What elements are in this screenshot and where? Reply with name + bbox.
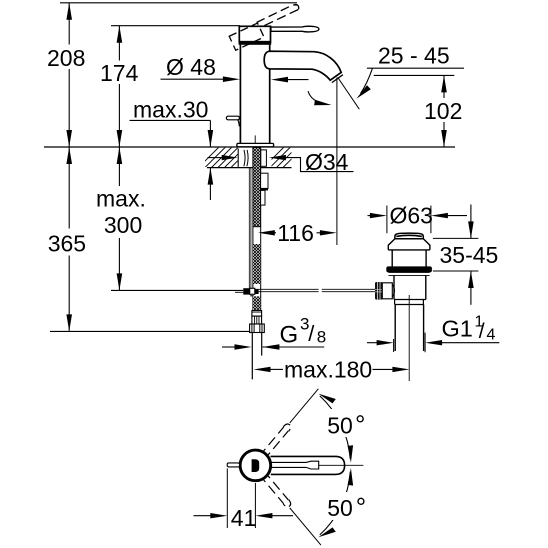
wire: 174 top reference line — [111, 25, 240, 27]
svg-text:Ø63: Ø63 — [390, 203, 433, 229]
faucet: lever (solid) — [271, 26, 319, 32]
dimension max.300 — [96, 147, 146, 290]
svg-text:300: 300 — [104, 212, 142, 238]
label Ø48 — [161, 54, 309, 82]
bottom view: dashed handle upper (50° up) — [263, 387, 322, 455]
svg-text:max.180: max.180 — [284, 357, 372, 383]
faucet: body sides — [240, 45, 269, 144]
G3/8 nut — [250, 324, 265, 333]
label G1 1/4 — [367, 314, 499, 353]
faucet: aerator inner line — [332, 75, 343, 83]
faucet body: handle cap — [239, 26, 270, 41]
label 50° upper — [322, 409, 369, 437]
faucet: center line in body — [254, 135, 256, 146]
svg-text:208: 208 — [47, 45, 85, 71]
label Ø63 — [368, 203, 468, 229]
wire: stream diagonal 25-45 — [338, 78, 360, 110]
hose end fitting: crimp sleeve — [252, 316, 262, 324]
shank: left mounting piece — [237, 149, 239, 167]
dimension 35-45 — [433, 205, 498, 305]
svg-text:41: 41 — [231, 505, 257, 531]
bottom view: center line right — [319, 464, 364, 466]
dimension 41 — [194, 469, 294, 532]
hose end fitting: collar — [252, 311, 262, 317]
wire: top reference line (208 top) — [60, 2, 297, 4]
bottom view: upper 50° arc — [320, 396, 351, 459]
pop-up rod — [249, 168, 251, 288]
drain: flange — [388, 239, 430, 250]
svg-text:Ø 48: Ø 48 — [166, 54, 216, 80]
countertop hatching left — [198, 146, 259, 168]
svg-text:G: G — [280, 322, 299, 349]
T junction of pop-up rod — [243, 288, 249, 294]
faucet: lever dashed (raised position) — [257, 5, 299, 27]
drain: upper tube — [392, 250, 426, 267]
svg-text:G1: G1 — [442, 316, 473, 342]
bottom view: cartridge hole (black D) — [252, 459, 260, 472]
drain: plug cap — [395, 233, 423, 239]
faucet: cap bottom band — [239, 41, 272, 45]
svg-text:102: 102 — [424, 98, 462, 124]
drain: knurled knob — [375, 282, 382, 300]
dimension max.30 — [130, 97, 214, 200]
drain: rubber gasket — [386, 266, 432, 272]
svg-text:4: 4 — [487, 327, 496, 344]
svg-text:max.: max. — [96, 186, 146, 212]
wire: 365 bottom reference line — [50, 330, 252, 332]
drain: center line — [408, 295, 410, 381]
drain: tailpipe G1 1/4 — [395, 305, 423, 352]
faucet: spout — [264, 51, 341, 80]
bottom view: left tab — [227, 463, 239, 467]
shank: right mounting piece — [261, 150, 267, 166]
svg-text:Ø34: Ø34 — [305, 149, 349, 175]
svg-text:50°: 50° — [327, 492, 366, 522]
shank: braided hose band — [253, 148, 261, 311]
faucet: cap dashed (raised position outline) — [229, 23, 264, 50]
bottom view: dashed handle lower (50° down) — [263, 475, 324, 546]
dimension max.180 — [254, 357, 410, 383]
bottom view: body circle — [240, 450, 271, 481]
wire: linkage rod to drain — [259, 289, 376, 291]
svg-text:8: 8 — [317, 327, 326, 346]
dimension 116 — [258, 220, 337, 246]
wire: vertical reference from spout outlet (116) — [336, 78, 338, 246]
drain: body tube — [394, 275, 426, 299]
bottom view: handle slot — [271, 461, 319, 469]
stream swivel arc with arrow — [308, 91, 326, 104]
faucet: lever dashed tip — [295, 5, 299, 10]
label Ø34 — [208, 149, 354, 175]
label 25 - 45 — [356, 43, 464, 99]
svg-text:35-45: 35-45 — [440, 242, 499, 268]
svg-text:365: 365 — [48, 231, 86, 257]
drain: collar — [394, 300, 426, 305]
label 50° lower — [322, 492, 369, 520]
wire: pop-up rod reference line — [111, 289, 243, 291]
drain: washer under gasket — [389, 272, 430, 275]
dimension 208 — [47, 3, 85, 147]
label G 3/8 — [222, 314, 326, 349]
countertop hatching right — [263, 146, 305, 168]
svg-text:174: 174 — [100, 60, 139, 86]
dimension 102 — [374, 75, 463, 147]
svg-text:25 - 45: 25 - 45 — [378, 43, 450, 69]
dimension 174 — [100, 26, 139, 147]
bottom view: lower 50° arc — [320, 472, 351, 535]
shank: mounting nut steps — [261, 173, 268, 188]
dimension 365 — [48, 147, 86, 331]
wire: countertop bottom line — [207, 167, 292, 169]
drain: Ø63 extension lines — [387, 206, 431, 234]
bottom view: handle (solid, horizontal) — [271, 456, 345, 474]
svg-text:/: / — [479, 320, 485, 343]
svg-text:50°: 50° — [327, 410, 365, 440]
pop-up rod handle at back of body — [226, 116, 239, 126]
G3/8 tube tails — [251, 333, 253, 380]
svg-text:/: / — [308, 321, 315, 346]
faucet: base plate — [237, 143, 274, 146]
svg-text:116: 116 — [277, 220, 314, 246]
drain: knob stem — [382, 283, 392, 299]
svg-text:max.30: max.30 — [133, 97, 208, 123]
wire: countertop top line — [44, 146, 455, 148]
